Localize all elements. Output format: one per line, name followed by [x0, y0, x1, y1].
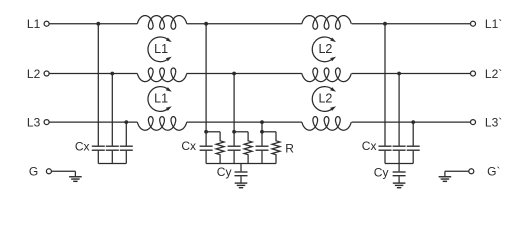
svg-text:L2: L2	[318, 92, 332, 106]
svg-text:Cx: Cx	[75, 139, 90, 153]
svg-text:L2: L2	[27, 67, 41, 81]
svg-text:L2: L2	[318, 42, 332, 56]
svg-text:G: G	[29, 165, 38, 179]
svg-text:L1: L1	[154, 92, 168, 106]
svg-text:G`: G`	[487, 165, 500, 179]
svg-text:L2`: L2`	[485, 67, 502, 81]
svg-text:Cx: Cx	[362, 139, 377, 153]
svg-text:L3`: L3`	[485, 115, 502, 129]
svg-text:L1`: L1`	[485, 17, 502, 31]
svg-text:Cy: Cy	[374, 165, 389, 179]
svg-text:Cy: Cy	[217, 165, 232, 179]
svg-text:L1: L1	[154, 42, 168, 56]
svg-text:Cx: Cx	[181, 139, 196, 153]
svg-text:L3: L3	[27, 115, 41, 129]
svg-text:L1: L1	[27, 17, 41, 31]
svg-text:R: R	[285, 142, 294, 156]
